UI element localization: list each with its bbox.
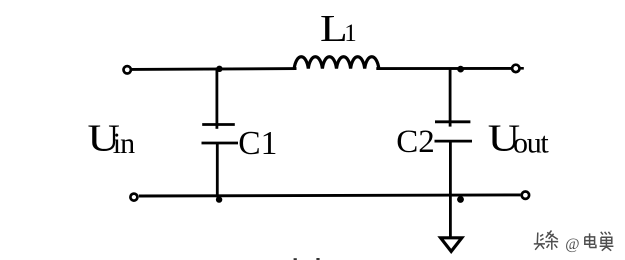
svg-text:C1: C1 xyxy=(238,125,277,162)
capacitor C2 xyxy=(435,68,473,237)
capacitor C1 xyxy=(202,68,239,198)
node junction dot bottom-right xyxy=(457,196,464,203)
svg-text:C2: C2 xyxy=(396,124,435,160)
wire bottom xyxy=(139,195,521,196)
inductor L1 xyxy=(294,57,379,69)
node junction dot bottom-left xyxy=(216,196,222,202)
terminal bottom-right xyxy=(522,192,529,199)
svg-text:1: 1 xyxy=(344,20,357,47)
svg-text:in: in xyxy=(113,127,135,160)
terminal top-right xyxy=(512,65,524,72)
label Uout xyxy=(488,117,550,160)
terminal bottom-left xyxy=(130,194,137,201)
wire top-left segment xyxy=(132,67,297,71)
label Uin xyxy=(88,117,136,160)
node junction dot top-left xyxy=(216,66,222,72)
svg-text:out: out xyxy=(513,126,549,159)
label L1 xyxy=(320,7,357,50)
node junction dot top-right xyxy=(457,66,464,73)
wire top-right segment xyxy=(376,67,511,70)
caption remnant marks at bottom edge xyxy=(294,258,320,260)
ground xyxy=(441,238,462,252)
terminal top-left xyxy=(124,66,131,73)
